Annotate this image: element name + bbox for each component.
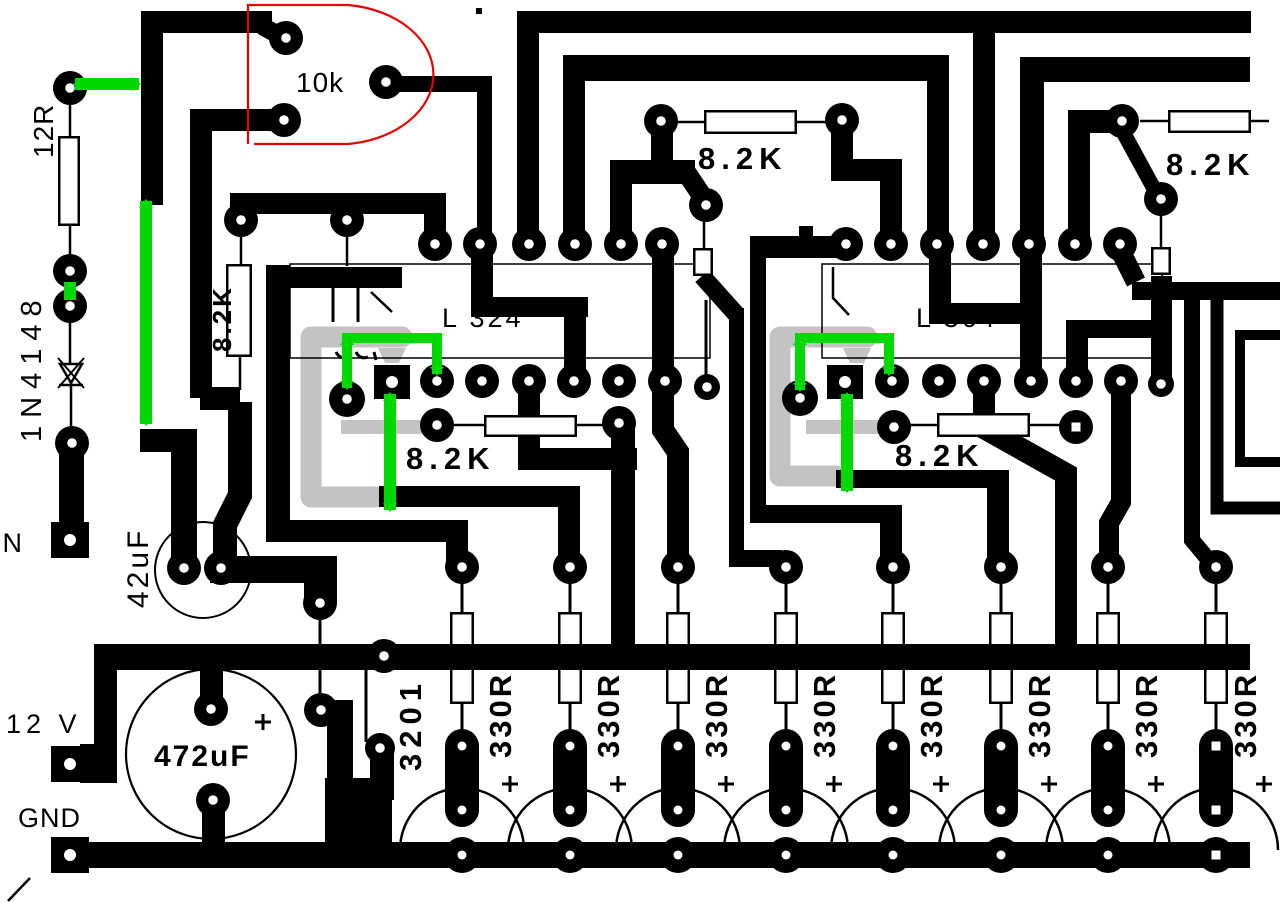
svg-text:8.2K: 8.2K (698, 141, 787, 176)
svg-text:GND: GND (18, 803, 81, 833)
svg-text:8.2K: 8.2K (207, 285, 237, 352)
svg-text:330R: 330R (591, 672, 626, 758)
svg-text:1N4148: 1N4148 (16, 292, 48, 442)
svg-text:12R: 12R (28, 104, 59, 158)
svg-text:10k: 10k (296, 67, 344, 98)
svg-text:330R: 330R (483, 672, 518, 758)
svg-text:12 V: 12 V (6, 709, 82, 739)
svg-text:330R: 330R (699, 672, 734, 758)
svg-text:42uF: 42uF (122, 528, 155, 608)
svg-text:330R: 330R (914, 672, 949, 758)
svg-text:330R: 330R (1129, 672, 1164, 758)
svg-text:330R: 330R (1228, 672, 1263, 758)
svg-text:330R: 330R (807, 672, 842, 758)
svg-text:8.2K: 8.2K (895, 438, 984, 473)
svg-text:8.2K: 8.2K (1166, 147, 1255, 182)
svg-text:472uF: 472uF (154, 740, 251, 773)
svg-text:3201: 3201 (393, 678, 428, 771)
svg-text:8.2K: 8.2K (406, 441, 495, 476)
svg-text:IN: IN (0, 528, 23, 558)
svg-text:330R: 330R (1022, 672, 1057, 758)
